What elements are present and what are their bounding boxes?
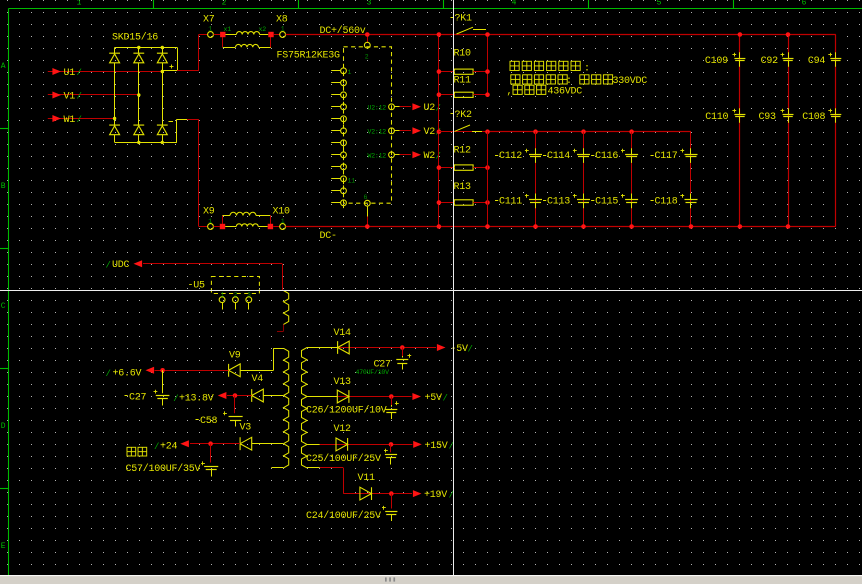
- wire column C116/C115: [629, 132, 634, 229]
- svg-text:V3: V3: [240, 423, 252, 434]
- svg-text:C: C: [1, 302, 6, 311]
- capacitor C25 100UF/25V: [306, 444, 397, 464]
- module left pin 10: [331, 176, 355, 184]
- svg-text:-U5: -U5: [188, 280, 206, 291]
- transformer primary winding: [284, 291, 289, 325]
- svg-text:DC+/560v: DC+/560v: [320, 25, 366, 37]
- svg-text:/: /: [77, 115, 82, 125]
- module output pin W2:12: [368, 152, 400, 159]
- wire column C112/C111: [533, 132, 538, 229]
- svg-text:+13.8V: +13.8V: [179, 393, 214, 404]
- junction: [268, 224, 273, 229]
- wire DC+ bus: [286, 34, 836, 36]
- svg-text:V14: V14: [334, 328, 352, 339]
- junction: [220, 224, 225, 229]
- node +19V: [413, 490, 454, 501]
- capacitor C27 470UF/10V: [356, 348, 412, 376]
- U5 pin 1: [219, 292, 225, 310]
- terminal X7: [203, 15, 215, 38]
- module left pin 7: [331, 140, 346, 148]
- wire column C117/C118: [689, 132, 694, 229]
- capacitor C109: [705, 52, 746, 67]
- svg-text:/: /: [173, 394, 178, 404]
- svg-text:1: 1: [208, 218, 212, 225]
- svg-text:?K2: ?K2: [455, 110, 473, 121]
- module output pin V2:12: [368, 128, 400, 135]
- svg-text:1: 1: [348, 69, 352, 76]
- svg-text:1: 1: [208, 26, 212, 33]
- capacitor C114: [543, 148, 590, 163]
- capacitor C108: [802, 108, 841, 123]
- inductor x1 (upper): [224, 26, 269, 35]
- wire left winding tap 2 to V4: [263, 395, 283, 397]
- svg-text:DC-: DC-: [320, 231, 337, 242]
- svg-text:1: 1: [77, 0, 82, 8]
- svg-text:/: /: [106, 369, 111, 379]
- wire W2 output: [400, 154, 412, 156]
- net label DC+/560v: [320, 25, 366, 37]
- svg-text:C115: C115: [595, 197, 618, 208]
- wire right winding tap 3 to V12: [307, 444, 336, 446]
- bridge diode D4 (lower col1): [109, 119, 120, 143]
- junction: [220, 32, 225, 37]
- svg-text:2: 2: [365, 54, 369, 61]
- svg-text:V1: V1: [64, 91, 76, 102]
- svg-text:C27: C27: [129, 392, 147, 403]
- svg-text:6: 6: [364, 194, 368, 201]
- U5 pin 2: [233, 292, 239, 310]
- svg-text:U2:12: U2:12: [368, 104, 387, 111]
- capacitor C113: [543, 194, 590, 209]
- svg-text:2: 2: [222, 0, 227, 8]
- capacitor C115: [591, 194, 638, 209]
- svg-text:W2: W2: [424, 151, 436, 162]
- wire column C114/C113: [581, 132, 586, 229]
- svg-text:+24: +24: [160, 441, 178, 452]
- svg-text:C111: C111: [499, 197, 522, 208]
- bridge + output corner: [162, 48, 177, 71]
- bridge diode D3 (upper col3): [157, 48, 168, 71]
- capacitor C118: [651, 194, 698, 209]
- wire UDC feed: [143, 264, 283, 291]
- IGBT module U? FS75R12KE3G outline: [344, 47, 392, 203]
- svg-text:C116: C116: [595, 151, 618, 162]
- bridge rectifier bottom bus: [115, 141, 177, 144]
- node UDC: [106, 260, 143, 271]
- wire cap bank left edge: [485, 132, 490, 229]
- terminal X8: [276, 15, 288, 38]
- inductor x4 (upper parallel): [223, 212, 271, 224]
- node +13.8V: [173, 392, 226, 404]
- annotation ,启动时436VDC: [507, 85, 583, 97]
- module pin 2 (top): [364, 32, 370, 60]
- svg-text:1: 1: [281, 218, 285, 225]
- svg-text:C109: C109: [705, 56, 728, 67]
- svg-text:C110: C110: [705, 112, 728, 123]
- bridge diode D1 (upper col1): [109, 48, 120, 119]
- svg-text:R12: R12: [454, 146, 472, 157]
- svg-text:4: 4: [512, 0, 517, 8]
- svg-text:V2: V2: [424, 127, 436, 138]
- svg-text:D: D: [1, 422, 6, 431]
- svg-text:C117: C117: [655, 151, 678, 162]
- capacitor C94: [808, 52, 841, 67]
- wire X9 to L2: [213, 226, 219, 228]
- svg-text:X10: X10: [273, 207, 291, 218]
- resistor R12: [437, 146, 490, 171]
- transformer secondary right winding group 2: [302, 397, 308, 445]
- svg-text:X9: X9: [203, 207, 215, 218]
- wire bridge- to X9: [187, 119, 208, 226]
- wire +15V rail: [336, 442, 412, 447]
- svg-text:U1: U1: [64, 68, 76, 79]
- wire cap bank top bus: [485, 129, 691, 134]
- wire L1 to X8: [274, 34, 280, 36]
- wire W1 input: [48, 117, 117, 120]
- node V2: [412, 127, 440, 138]
- svg-text:A: A: [1, 62, 6, 71]
- module left pin 4: [331, 104, 346, 112]
- svg-text:+15V: +15V: [425, 441, 448, 452]
- relay contact ?K2: [439, 110, 488, 131]
- svg-text:U2: U2: [424, 103, 436, 114]
- svg-text:C26/1200UF/10V: C26/1200UF/10V: [306, 405, 387, 417]
- capacitor C93: [759, 108, 794, 123]
- wire column C94/C108: [835, 35, 837, 227]
- svg-text:C114: C114: [547, 151, 570, 162]
- wire L2 to X10: [273, 226, 280, 228]
- wire +19V rail: [360, 491, 412, 496]
- wire left winding bottom tap: [271, 467, 283, 469]
- svg-text:V9: V9: [229, 351, 241, 362]
- wire column C92/C93: [786, 32, 791, 229]
- module left pin 8: [331, 152, 346, 160]
- svg-text:V13: V13: [334, 377, 352, 388]
- svg-text:C108: C108: [802, 112, 825, 123]
- module left pin 2: [331, 80, 346, 88]
- svg-text:1: 1: [281, 26, 285, 33]
- svg-text:+5V: +5V: [425, 393, 443, 404]
- svg-text:/: /: [154, 442, 159, 452]
- svg-text:B: B: [1, 182, 6, 191]
- capacitor C112: [495, 148, 542, 163]
- svg-text:3: 3: [367, 0, 372, 8]
- transformer secondary right winding group 3: [302, 444, 308, 468]
- transformer secondary right winding group 1: [302, 348, 308, 397]
- capacitor C110: [705, 108, 745, 123]
- svg-text:330VDC: 330VDC: [613, 76, 648, 87]
- node +5V: [412, 393, 447, 404]
- transformer secondary left winding group 2: [284, 396, 289, 444]
- svg-text:X8: X8: [276, 15, 288, 26]
- svg-text:FS75R12KE3G: FS75R12KE3G: [277, 51, 341, 62]
- capacitor C58: [196, 396, 243, 428]
- junction: [268, 32, 273, 37]
- svg-text:5: 5: [657, 0, 662, 8]
- module left pin 6: [331, 128, 346, 136]
- node W2: [412, 151, 440, 162]
- terminal X10: [273, 207, 291, 230]
- optocoupler U5 outline: [188, 277, 260, 294]
- bridge rectifier SKD15/16 label: [112, 32, 158, 44]
- transformer secondary left winding group 3: [284, 444, 289, 468]
- svg-text:+19V: +19V: [424, 490, 447, 501]
- wire +13.8V rail: [227, 393, 252, 398]
- node U2: [412, 103, 440, 114]
- bridge - output corner: [169, 119, 188, 142]
- diode V9: [229, 351, 241, 377]
- module left pin 3: [331, 92, 346, 100]
- resistor R10: [437, 49, 490, 75]
- terminal X9: [203, 207, 215, 230]
- svg-text:V12: V12: [334, 424, 352, 435]
- relay contact ?K1: [451, 14, 487, 35]
- node V1: [52, 91, 81, 102]
- wire right winding tap 2 to V13: [307, 396, 337, 398]
- wire U1 input: [48, 70, 164, 73]
- inductor x2 (lower parallel): [223, 26, 272, 48]
- net label DC-: [320, 231, 337, 242]
- diode V3: [240, 423, 252, 451]
- svg-text:UDC: UDC: [112, 260, 130, 271]
- bridge diode D5 (lower col2): [133, 95, 144, 142]
- diode V4: [252, 374, 264, 402]
- svg-text:R11: R11: [454, 76, 472, 87]
- diode V14: [334, 328, 352, 354]
- wire right winding bottom tap to V11: [307, 468, 360, 494]
- svg-text:3: 3: [247, 292, 251, 299]
- svg-text:?K1: ?K1: [455, 14, 473, 25]
- capacitor C116: [591, 148, 638, 163]
- svg-text:C93: C93: [759, 112, 777, 123]
- module left pin 11: [331, 188, 346, 196]
- module output pin U2:12: [368, 104, 400, 112]
- node +6.6V: [106, 367, 155, 380]
- svg-text:R10: R10: [454, 49, 472, 60]
- bridge diode D6 (lower col3): [157, 71, 168, 143]
- capacitor C57 100UF/35V: [126, 444, 219, 477]
- wire left winding tap 3 to V3: [251, 443, 283, 445]
- wire X7 to L1: [213, 34, 220, 36]
- diode V11: [358, 473, 376, 500]
- horizontal scrollbar: [0, 575, 862, 584]
- svg-text::: :: [566, 76, 572, 87]
- capacitor C117: [651, 148, 698, 163]
- sheet border left ruler: [0, 9, 9, 576]
- diode V12: [334, 424, 352, 451]
- wire +24 rail: [190, 441, 240, 446]
- svg-text:V2:12: V2:12: [368, 128, 387, 135]
- svg-text:R13: R13: [454, 182, 472, 193]
- svg-text:V4: V4: [252, 374, 264, 385]
- svg-text:/: /: [468, 345, 473, 355]
- svg-text:SKD15/16: SKD15/16: [112, 32, 158, 44]
- svg-text:C57/100UF/35V: C57/100UF/35V: [126, 463, 201, 475]
- wire left winding top tap to V9: [240, 348, 283, 370]
- module label FS75R12KE3G: [277, 51, 341, 62]
- annotation 检测分压电阻:: [510, 61, 590, 74]
- capacitor C24 100UF/25V: [306, 494, 397, 522]
- svg-text:2: 2: [234, 292, 238, 299]
- svg-text:436VDC: 436VDC: [548, 87, 583, 98]
- module left pin 9: [331, 164, 346, 172]
- svg-text:/: /: [449, 491, 454, 501]
- svg-text:X7: X7: [203, 15, 215, 26]
- wire primary return stub: [277, 324, 284, 331]
- svg-text:C112: C112: [499, 151, 522, 162]
- svg-text:C94: C94: [808, 56, 826, 67]
- svg-text:x2: x2: [259, 26, 267, 33]
- wire V2 output: [400, 130, 412, 132]
- annotation 欠压极限值: 运行时330VDC: [511, 75, 647, 87]
- svg-text:1: 1: [221, 292, 225, 299]
- svg-text:C24/100UF/25V: C24/100UF/25V: [306, 510, 381, 522]
- svg-text:C25/100UF/25V: C25/100UF/25V: [306, 453, 381, 465]
- svg-text:/: /: [449, 442, 454, 452]
- bridge diode D2 (upper col2): [133, 48, 144, 96]
- bridge rectifier top bus: [115, 46, 178, 49]
- wire vertical bus left of K1 column: [437, 32, 442, 229]
- capacitor C111: [495, 194, 542, 209]
- svg-text:C113: C113: [547, 197, 570, 208]
- resistor R11: [437, 76, 490, 98]
- inductor x3 (inline): [225, 224, 267, 227]
- resistor R13: [437, 182, 490, 205]
- svg-text:/: /: [443, 394, 448, 404]
- svg-text:W1: W1: [64, 115, 76, 126]
- svg-text:W2:12: W2:12: [368, 152, 387, 159]
- svg-text::: :: [584, 63, 590, 74]
- wire +5V rail: [338, 394, 412, 399]
- svg-text:E: E: [1, 542, 6, 551]
- label 风机: [127, 447, 147, 456]
- svg-text:/: /: [77, 92, 82, 102]
- svg-text:,: ,: [507, 87, 513, 98]
- capacitor C26 1200UF/10V: [306, 397, 399, 420]
- svg-text:C118: C118: [655, 197, 678, 208]
- wire U2 output: [400, 106, 412, 108]
- sheet border top ruler: [9, 0, 862, 9]
- capacitor C92: [761, 52, 794, 67]
- node U1: [52, 68, 81, 79]
- wire DC- bus: [286, 226, 836, 228]
- wire column C109/C110: [738, 32, 743, 229]
- svg-text:C58: C58: [200, 416, 218, 427]
- node +15V: [413, 441, 454, 452]
- wire bridge+ to X7: [177, 35, 207, 71]
- capacitor C27a: [125, 370, 170, 405]
- node +24: [154, 440, 189, 452]
- svg-text:470UF/10V: 470UF/10V: [356, 369, 390, 376]
- wire vertical right of K1: [485, 32, 490, 94]
- svg-text:x1: x1: [224, 26, 232, 33]
- module left pin 5: [331, 116, 346, 124]
- wire right winding top tap to V14: [307, 347, 338, 349]
- svg-text:/: /: [77, 68, 82, 78]
- module left pin 1: [331, 68, 351, 76]
- svg-text:11: 11: [348, 177, 356, 184]
- svg-text:V11: V11: [358, 473, 376, 484]
- svg-text:C92: C92: [761, 56, 779, 67]
- svg-text:6: 6: [802, 0, 807, 8]
- module left pin 12: [331, 200, 346, 208]
- transformer secondary left winding group 1: [284, 348, 289, 395]
- U5 pin 3: [246, 292, 252, 310]
- wire V1 input: [48, 93, 141, 96]
- wire -5V rail: [338, 345, 436, 350]
- node -5V: [437, 344, 473, 355]
- module pin 6 (bottom): [364, 194, 371, 229]
- svg-text:+6.6V: +6.6V: [113, 368, 142, 379]
- node W1: [52, 115, 81, 126]
- diode V13: [334, 377, 352, 403]
- wire +6.6V rail: [155, 368, 229, 373]
- svg-text:/: /: [106, 261, 111, 271]
